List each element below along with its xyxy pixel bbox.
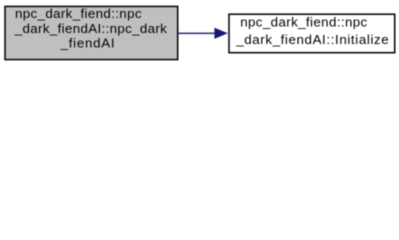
svg-text:_dark_fiendAI::npc_dark: _dark_fiendAI::npc_dark bbox=[14, 21, 167, 36]
edge arrow Node1 -> Node2 bbox=[178, 28, 227, 38]
svg-text:_dark_fiendAI::Initialize: _dark_fiendAI::Initialize bbox=[235, 32, 389, 47]
wire bbox=[178, 32, 215, 34]
svg-text:npc_dark_fiend::npc: npc_dark_fiend::npc bbox=[240, 14, 367, 29]
node Node1 npc_dark_fiendAI constructor (filled grey) bbox=[5, 6, 178, 60]
svg-text:npc_dark_fiend::npc: npc_dark_fiend::npc bbox=[15, 6, 142, 21]
arrowhead bbox=[215, 28, 227, 38]
svg-text:_fiendAI: _fiendAI bbox=[60, 36, 115, 51]
node Node2 Initialize (white) bbox=[229, 14, 395, 53]
